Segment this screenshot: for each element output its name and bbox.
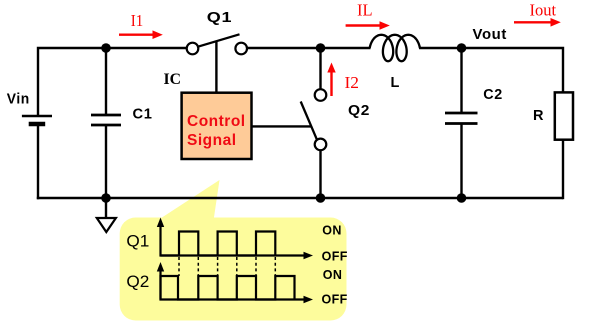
capacitor C2 <box>445 113 478 124</box>
switch Q2 <box>301 89 327 150</box>
wire bottom rail <box>37 197 563 199</box>
arrow Iout <box>514 18 561 27</box>
wire C1 branch upper <box>105 48 107 115</box>
wire Q2 control <box>251 125 311 127</box>
node bottom Q2 <box>316 193 326 203</box>
control signal text <box>187 113 246 149</box>
wire top rail after inductor <box>419 48 563 93</box>
svg-text:Signal: Signal <box>187 132 237 149</box>
waveform dashed transition lines <box>179 257 275 276</box>
svg-text:Vin: Vin <box>7 91 30 107</box>
callout bubble <box>120 180 347 321</box>
ground <box>97 198 116 232</box>
battery Vin <box>22 116 52 124</box>
svg-text:L: L <box>391 75 400 91</box>
svg-text:OFF: OFF <box>322 249 348 263</box>
wire right rail lower <box>562 140 564 200</box>
wire left rail lower <box>37 124 39 199</box>
waveform Q2 trace <box>161 276 295 300</box>
wire C2 branch upper <box>460 48 462 113</box>
wire Q2 branch upper <box>319 48 321 89</box>
resistor R <box>555 92 573 139</box>
waveform Q2 vertical axis <box>157 262 164 301</box>
svg-text:IC: IC <box>164 71 182 88</box>
wire C1 branch lower <box>105 125 107 198</box>
node bottom C1 <box>101 193 111 203</box>
svg-text:C1: C1 <box>133 107 153 123</box>
inductor L <box>370 35 420 61</box>
svg-text:ON: ON <box>322 224 342 238</box>
svg-text:Iout: Iout <box>530 0 557 19</box>
svg-text:Q1: Q1 <box>126 231 149 250</box>
wire C2 branch lower <box>460 124 462 199</box>
waveform Q1 horizontal axis <box>160 252 314 259</box>
svg-text:Vout: Vout <box>473 27 508 43</box>
svg-text:I1: I1 <box>131 11 144 30</box>
control signal box IC <box>182 93 252 159</box>
arrow IL <box>346 21 390 30</box>
svg-text:OFF: OFF <box>322 292 348 306</box>
svg-text:R: R <box>533 108 544 124</box>
svg-text:Q2: Q2 <box>126 272 149 291</box>
node top Q2 <box>316 43 326 53</box>
node bottom C2 <box>457 193 467 203</box>
node Vout <box>457 43 467 53</box>
svg-text:C2: C2 <box>483 87 503 103</box>
wire top rail left <box>38 48 187 116</box>
node top C1 <box>101 43 111 53</box>
waveform Q2 horizontal axis <box>160 296 314 303</box>
svg-text:Control: Control <box>187 113 246 130</box>
svg-text:ON: ON <box>323 268 343 282</box>
capacitor C1 <box>91 115 121 125</box>
arrow I2 <box>327 63 335 97</box>
wire Q2 branch lower <box>319 150 321 198</box>
wire Q1 control <box>215 42 217 93</box>
svg-text:Q1: Q1 <box>207 10 233 26</box>
wire top rail right <box>247 47 371 49</box>
waveform Q1 trace <box>161 232 276 256</box>
svg-text:I2: I2 <box>345 73 360 92</box>
waveform Q1 vertical axis <box>157 218 164 257</box>
arrow I1 <box>119 30 163 39</box>
svg-text:Q2: Q2 <box>348 103 370 119</box>
switch Q1 <box>187 34 247 54</box>
svg-text:IL: IL <box>357 1 373 20</box>
